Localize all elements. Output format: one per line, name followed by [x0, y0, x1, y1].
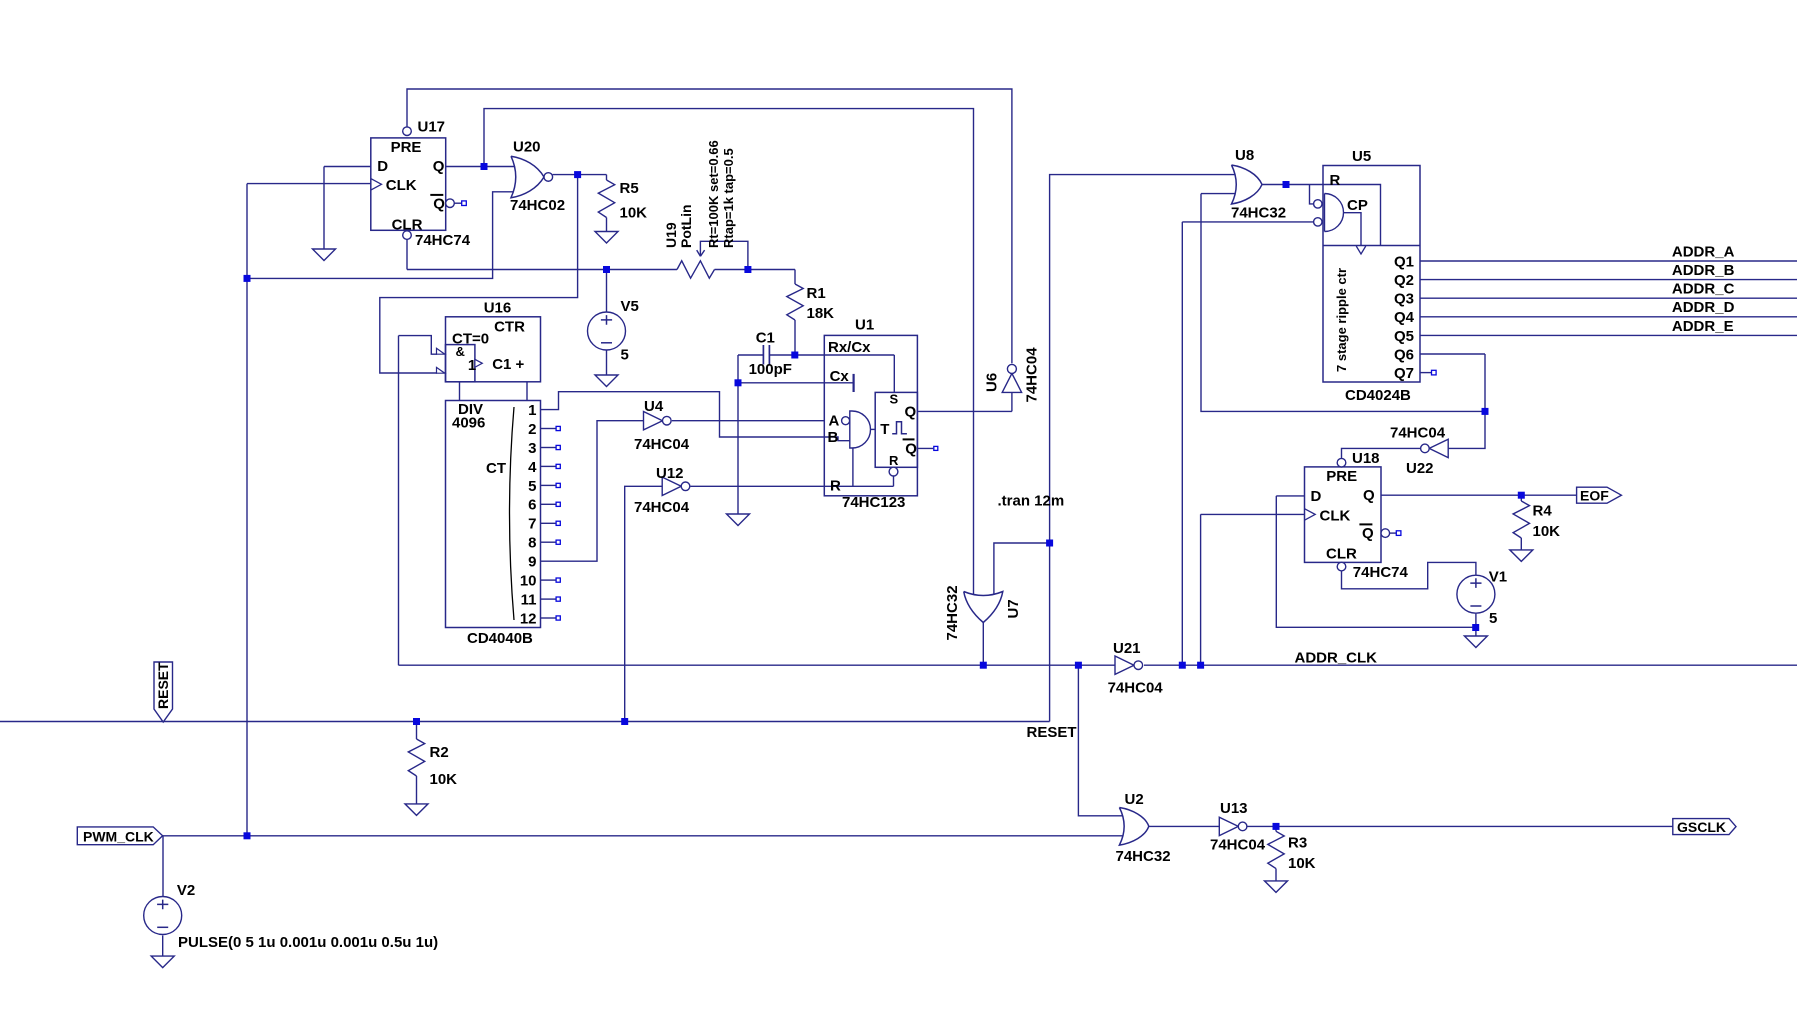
svg-text:5: 5	[621, 347, 629, 364]
svg-text:R1: R1	[807, 285, 826, 302]
svg-text:Rx/Cx: Rx/Cx	[828, 339, 871, 356]
svg-text:18K: 18K	[807, 305, 835, 322]
svg-text:1: 1	[528, 402, 536, 419]
svg-text:PRE: PRE	[1326, 468, 1357, 485]
svg-text:Q1: Q1	[1394, 253, 1414, 270]
svg-text:U16: U16	[484, 299, 512, 316]
svg-text:74HC04: 74HC04	[634, 499, 690, 516]
svg-text:U6: U6	[984, 373, 1001, 392]
svg-text:D: D	[377, 158, 388, 175]
svg-text:Cx: Cx	[830, 368, 850, 385]
svg-text:V2: V2	[177, 882, 195, 899]
svg-text:R3: R3	[1288, 835, 1307, 852]
svg-text:EOF: EOF	[1580, 488, 1609, 504]
svg-text:74HC04: 74HC04	[1390, 425, 1446, 442]
svg-text:U4: U4	[644, 398, 664, 415]
svg-text:ADDR_C: ADDR_C	[1672, 281, 1735, 298]
svg-text:D: D	[1311, 488, 1322, 505]
svg-text:ADDR_B: ADDR_B	[1672, 262, 1735, 279]
svg-text:1: 1	[468, 357, 476, 374]
svg-text:7: 7	[528, 516, 536, 533]
svg-text:74HC04: 74HC04	[1108, 679, 1164, 696]
svg-text:A: A	[829, 413, 840, 430]
svg-text:ADDR_D: ADDR_D	[1672, 299, 1735, 316]
svg-text:9: 9	[528, 554, 536, 571]
svg-text:U18: U18	[1352, 450, 1380, 467]
svg-text:R: R	[830, 478, 841, 495]
svg-text:5: 5	[1489, 610, 1497, 627]
svg-text:C1 +: C1 +	[492, 356, 524, 373]
svg-text:PRE: PRE	[391, 139, 422, 156]
svg-text:R5: R5	[620, 180, 639, 197]
svg-text:U7: U7	[1005, 599, 1022, 618]
svg-text:11: 11	[521, 592, 537, 609]
svg-text:R: R	[1330, 172, 1341, 189]
svg-text:.tran 12m: .tran 12m	[998, 493, 1065, 510]
svg-text:100pF: 100pF	[749, 361, 792, 378]
svg-text:74HC04: 74HC04	[634, 436, 690, 453]
svg-text:CLK: CLK	[386, 177, 417, 194]
svg-text:6: 6	[528, 497, 536, 514]
svg-text:CD4040B: CD4040B	[467, 630, 533, 647]
svg-text:ADDR_A: ADDR_A	[1672, 243, 1735, 260]
svg-text:12: 12	[520, 610, 537, 627]
svg-text:B: B	[828, 429, 839, 446]
svg-text:U22: U22	[1406, 460, 1434, 477]
svg-text:Q6: Q6	[1394, 346, 1414, 363]
svg-text:ADDR_CLK: ADDR_CLK	[1295, 650, 1378, 667]
svg-text:74HC74: 74HC74	[415, 232, 471, 249]
svg-text:V1: V1	[1489, 569, 1507, 586]
svg-text:Q: Q	[905, 441, 917, 458]
svg-text:74HC04: 74HC04	[1024, 347, 1041, 403]
svg-text:10K: 10K	[430, 771, 458, 788]
svg-text:Q: Q	[905, 403, 917, 420]
svg-text:U5: U5	[1352, 148, 1371, 165]
svg-text:PotLin: PotLin	[678, 204, 694, 248]
svg-text:8: 8	[528, 535, 536, 552]
svg-text:Q2: Q2	[1394, 272, 1414, 289]
svg-text:U1: U1	[855, 317, 874, 334]
svg-text:U2: U2	[1125, 791, 1144, 808]
svg-text:2: 2	[528, 421, 536, 438]
svg-text:RESET: RESET	[1027, 724, 1077, 741]
svg-text:U19: U19	[663, 222, 679, 248]
svg-text:R4: R4	[1533, 503, 1553, 520]
svg-text:PWM_CLK: PWM_CLK	[83, 828, 154, 844]
svg-text:PULSE(0 5 1u 0.001u 0.001u 0.5: PULSE(0 5 1u 0.001u 0.001u 0.5u 1u)	[178, 934, 438, 951]
svg-text:U13: U13	[1220, 800, 1248, 817]
svg-text:U21: U21	[1113, 640, 1141, 657]
svg-text:V5: V5	[621, 298, 639, 315]
svg-text:Q4: Q4	[1394, 309, 1415, 326]
svg-text:CT: CT	[486, 460, 506, 477]
svg-text:74HC32: 74HC32	[1116, 848, 1171, 865]
svg-text:4: 4	[528, 459, 537, 476]
svg-text:CP: CP	[1347, 197, 1368, 214]
svg-text:CLR: CLR	[1326, 546, 1357, 563]
svg-text:Q7: Q7	[1394, 365, 1414, 382]
svg-text:&: &	[456, 344, 465, 359]
svg-text:74HC02: 74HC02	[510, 197, 565, 214]
svg-text:Rt=100K set=0.66: Rt=100K set=0.66	[706, 140, 721, 248]
svg-text:Q: Q	[433, 158, 445, 175]
svg-text:T: T	[880, 421, 889, 438]
svg-text:CTR: CTR	[494, 318, 525, 335]
svg-text:3: 3	[528, 440, 536, 457]
svg-text:CD4024B: CD4024B	[1345, 387, 1411, 404]
svg-text:S: S	[890, 392, 899, 407]
svg-text:CLK: CLK	[1320, 507, 1351, 524]
svg-text:R: R	[889, 453, 899, 468]
svg-text:C1: C1	[756, 330, 775, 347]
svg-text:Q3: Q3	[1394, 291, 1414, 308]
svg-text:4096: 4096	[452, 415, 485, 432]
svg-text:74HC32: 74HC32	[944, 585, 961, 640]
svg-text:10K: 10K	[620, 205, 648, 222]
svg-text:Q5: Q5	[1394, 328, 1414, 345]
svg-text:74HC04: 74HC04	[1210, 837, 1266, 854]
svg-text:U8: U8	[1235, 147, 1254, 164]
svg-text:GSCLK: GSCLK	[1677, 819, 1726, 835]
svg-text:Q: Q	[1362, 525, 1374, 542]
svg-text:U12: U12	[656, 465, 684, 482]
svg-text:74HC123: 74HC123	[842, 494, 905, 511]
svg-text:10: 10	[520, 573, 537, 590]
svg-text:RESET: RESET	[155, 662, 171, 709]
svg-text:U17: U17	[418, 119, 446, 136]
svg-text:ADDR_E: ADDR_E	[1672, 318, 1734, 335]
svg-text:Rtap=1k tap=0.5: Rtap=1k tap=0.5	[721, 148, 736, 248]
svg-text:5: 5	[528, 478, 536, 495]
svg-text:7 stage ripple ctr: 7 stage ripple ctr	[1334, 268, 1349, 372]
svg-text:10K: 10K	[1288, 855, 1316, 872]
svg-text:Q: Q	[1363, 487, 1375, 504]
svg-text:U20: U20	[513, 139, 541, 156]
svg-text:CLR: CLR	[392, 216, 423, 233]
svg-text:10K: 10K	[1533, 523, 1561, 540]
svg-text:74HC74: 74HC74	[1353, 564, 1409, 581]
svg-text:R2: R2	[430, 744, 449, 761]
svg-text:Q: Q	[433, 196, 445, 213]
svg-text:74HC32: 74HC32	[1231, 205, 1286, 222]
